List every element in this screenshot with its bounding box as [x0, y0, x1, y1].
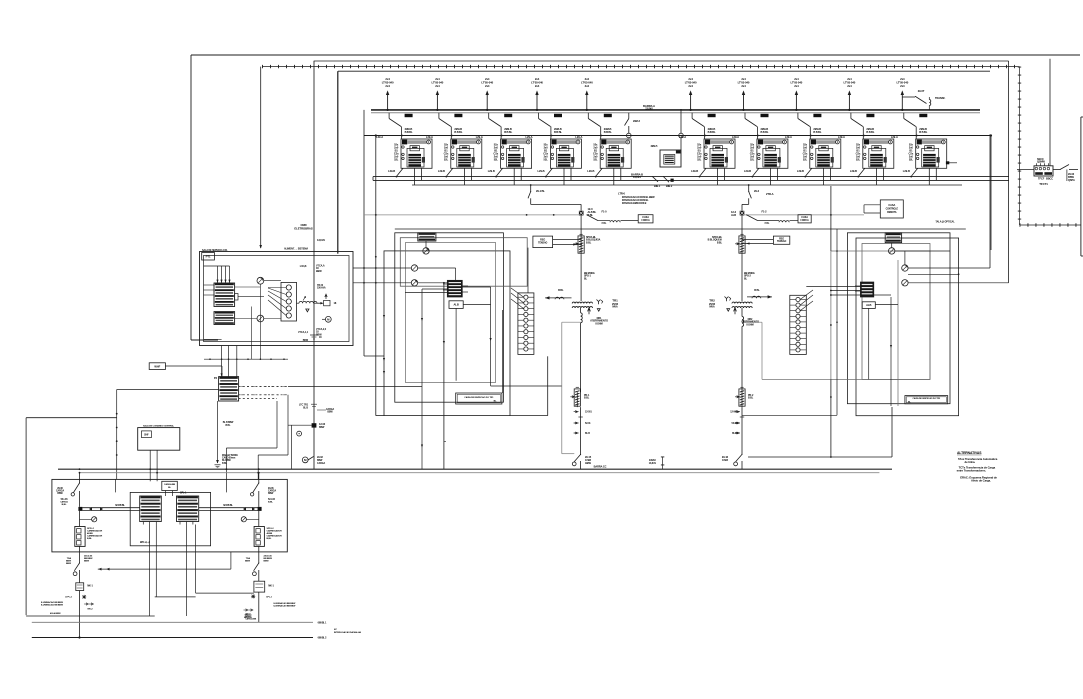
wire from TR2 meter 3 to frame	[908, 282, 1009, 284]
svg-text:BBW: BBW	[327, 412, 333, 414]
TR1 meter circle 1	[423, 241, 429, 254]
feeder bay 2 with breaker 52-2	[426, 77, 482, 185]
svg-text:LTC TR1: LTC TR1	[299, 404, 309, 407]
TR2 high-side chain	[731, 210, 744, 217]
transfer switch right of TFCT1	[1053, 165, 1078, 183]
TR1 inner equipment box	[406, 243, 496, 383]
TR1 meter circle 3	[411, 280, 417, 286]
LV yard enclosure	[26, 418, 155, 616]
motor M near bus	[302, 456, 325, 465]
svg-text:INTERLIG BBW DOS B: INTERLIG BBW DOS B	[622, 202, 647, 205]
LV right incomer	[250, 468, 276, 507]
svg-text:29M‑5: 29M‑5	[651, 144, 658, 148]
control wire to TR2 chain	[744, 214, 864, 216]
svg-text:29B‑2: 29B‑2	[666, 185, 673, 188]
svg-text:F BL: F BL	[602, 223, 607, 225]
pilot lamp circle	[297, 431, 302, 436]
tap wire from TR1 neutral	[562, 322, 581, 454]
svg-text:MVA: MVA	[709, 305, 714, 309]
signal bundle down to LV room	[226, 395, 291, 480]
svg-text:B,BL: B,BL	[62, 504, 68, 506]
svg-text:606/BL 2: 606/BL 2	[318, 638, 327, 640]
LV main bus conductor A	[58, 468, 892, 470]
TR2 remote panel box	[864, 200, 903, 218]
aux transformer winding	[299, 294, 337, 312]
left distribution wire	[116, 390, 219, 480]
svg-text:BBCC: BBCC	[1046, 177, 1053, 181]
svg-text:TFCF: TFCF	[1038, 177, 1045, 181]
svg-text:de linha.: de linha.	[965, 460, 976, 464]
svg-text:B BL: B BL	[584, 397, 590, 400]
svg-text:BBW: BBW	[585, 462, 591, 465]
svg-text:H 13,8: H 13,8	[300, 265, 307, 268]
control wire to TR1 chain	[364, 214, 579, 216]
aux service inner box	[204, 256, 350, 342]
section interconnect line	[395, 228, 966, 230]
fenced comms border top	[262, 66, 1020, 68]
LV right feeder chain below board	[245, 552, 274, 622]
svg-text:Alivio de Carga.: Alivio de Carga.	[971, 479, 991, 483]
svg-text:13,8 kV: 13,8 kV	[633, 175, 641, 179]
svg-text:REMOTA: REMOTA	[887, 211, 897, 214]
TR1 aux branch: switch, reactor, panel	[586, 210, 653, 225]
TR1 section box 2	[395, 233, 504, 402]
aux meter 1	[257, 277, 264, 284]
svg-text:29‑02: 29‑02	[317, 456, 324, 459]
ALTERNATIVAS notes	[957, 451, 998, 483]
TR1 ground switch 29-15	[572, 454, 591, 469]
TR2 neutral grounding reactor	[741, 308, 759, 392]
CAIXA inspection box TR2	[905, 396, 948, 404]
interconnection note block	[618, 192, 655, 206]
TR2 aux riser wire	[897, 260, 899, 406]
svg-text:CONTROLE: CONTROLE	[886, 208, 899, 210]
arrows on TR1 section edge	[383, 315, 385, 374]
TR1 caixa feed wire	[502, 310, 504, 393]
svg-text:12‑001: 12‑001	[585, 412, 593, 414]
svg-text:MK‑2: MK‑2	[87, 609, 93, 611]
inner frame B	[314, 61, 1009, 283]
TR2 neutral tap wire	[742, 322, 831, 379]
aux motor M	[322, 316, 331, 322]
surge arrester TR1 primary	[574, 215, 584, 254]
LV left meter	[80, 517, 97, 522]
wire TR1 box to bus	[443, 282, 446, 469]
TR1 incomer drop with switch 29-1	[528, 184, 581, 211]
svg-text:TENSAO: TENSAO	[777, 240, 786, 243]
svg-text:CARGA BB: CARGA BB	[164, 483, 175, 486]
wire aux room to TR1 meter 2	[353, 267, 411, 269]
svg-text:ELETROBRAS: ELETROBRAS	[294, 226, 312, 230]
TR2 inner equipment box	[831, 251, 930, 379]
svg-text:12‑002: 12‑002	[730, 412, 738, 414]
wire: sub-bus down left side	[375, 136, 377, 416]
surge arrester TR2 neutral	[735, 387, 745, 407]
svg-text:ALB: ALB	[866, 303, 871, 307]
module pins	[143, 522, 193, 525]
svg-text:BARRA CC: BARRA CC	[594, 465, 607, 469]
svg-text:BBW: BBW	[319, 427, 325, 429]
LV tie double line	[78, 505, 261, 511]
PT1 name box	[202, 249, 228, 260]
svg-text:CARGA: CARGA	[56, 490, 64, 493]
breaker bus end cap	[372, 177, 374, 181]
TR1 relay module (dense)	[443, 280, 468, 297]
svg-text:B BL: B BL	[222, 463, 228, 465]
svg-text:BL B BBW: BL B BBW	[223, 422, 234, 424]
dashed signal rows from relay cabinet	[239, 386, 288, 398]
svg-text:FORCA: FORCA	[641, 219, 650, 222]
TR2 CT junction box	[885, 233, 901, 243]
svg-text:CABO 50mm: CABO 50mm	[222, 457, 235, 460]
feeder bay 3 with breaker 52-3	[476, 77, 532, 185]
svg-text:ILUMINACAO BB BBW: ILUMINACAO BB BBW	[41, 604, 64, 607]
TR2 section box 3	[862, 244, 930, 380]
svg-text:SHF: SHF	[144, 433, 149, 436]
svg-text:29‑0T: 29‑0T	[918, 89, 925, 93]
main bus second conductor	[371, 112, 980, 114]
svg-text:12‑02: 12‑02	[319, 422, 326, 426]
svg-text:150 kVA: 150 kVA	[317, 287, 326, 290]
svg-text:MALHA TERRA: MALHA TERRA	[222, 454, 238, 457]
SALA DE COMANDO CENTRAL box	[138, 424, 180, 472]
LV left notes	[41, 601, 93, 615]
fenced comms border right	[1019, 67, 1021, 225]
TR1 meter circle 2	[411, 265, 417, 271]
panel box beside TR1 arrester	[533, 236, 553, 248]
svg-text:QSMW: QSMW	[1037, 160, 1046, 164]
svg-text:8 OHM: 8 OHM	[746, 323, 753, 326]
panel box beside TR2 arrester	[773, 236, 789, 244]
svg-text:TENSAO: TENSAO	[538, 242, 547, 245]
breaker return line	[412, 184, 962, 186]
feeder bay 1 with breaker 52-1	[376, 77, 432, 185]
svg-text:entre Transformadores.: entre Transformadores.	[957, 469, 987, 473]
svg-text:CARGA: CARGA	[60, 501, 68, 504]
remote transfer cubicle TFCT1	[1017, 157, 1053, 186]
bottom note	[334, 628, 361, 634]
svg-text:FORCA: FORCA	[800, 219, 809, 222]
wire: bus to TR1 section left	[363, 110, 365, 356]
svg-text:MK‑1: MK‑1	[87, 586, 93, 588]
ground connection below relay cabinet	[215, 401, 239, 468]
power transformer TR2	[709, 297, 752, 315]
TR2 relay module (dense)	[855, 282, 874, 297]
svg-text:BPL‑1: BPL‑1	[180, 493, 187, 495]
TR2 low side link to ground bus	[748, 407, 892, 457]
LV top link box	[162, 481, 187, 496]
bay 10 bus-transfer switch	[902, 89, 945, 110]
TR2 CT circle stack	[790, 290, 813, 354]
protection relay cabinet	[219, 377, 239, 401]
svg-text:CP‑L1: CP‑L1	[266, 597, 273, 599]
LV left battery box	[75, 511, 103, 552]
TR2 incomer drop with switch 29-2	[742, 184, 774, 211]
TR1 riser wire	[490, 287, 562, 386]
TR1 neutral grounding reactor	[581, 308, 609, 392]
LV switchboard inner box	[130, 492, 210, 545]
svg-text:62‑BB BL: 62‑BB BL	[115, 505, 125, 507]
svg-text:ALB: ALB	[731, 213, 736, 217]
feeder breaker (black) on x=314	[288, 404, 334, 430]
svg-text:VTCA,1,1: VTCA,1,1	[298, 331, 309, 334]
dc tie wire to right chain	[196, 592, 254, 594]
aux relay stack A	[214, 283, 235, 307]
svg-text:52‑01: 52‑01	[585, 423, 591, 425]
svg-text:B BL: B BL	[586, 241, 592, 244]
breaker bus B	[373, 179, 1009, 181]
svg-text:52‑02: 52‑02	[731, 423, 737, 425]
TR2 aux branch: switch, reactor, panel	[746, 210, 811, 225]
svg-text:B,BL: B,BL	[267, 538, 273, 540]
svg-text:13,8kV: 13,8kV	[645, 106, 653, 110]
TR2 aux box ALB	[862, 302, 875, 309]
svg-text:BBW: BBW	[57, 493, 63, 495]
outer drawing frame	[191, 55, 1080, 340]
relay cabinet feeders from aux room	[204, 284, 288, 377]
LV right chain arrows	[244, 609, 253, 611]
power transformer TR1	[572, 299, 618, 315]
svg-text:2TR‑A: 2TR‑A	[766, 192, 774, 196]
TR2 chain to transformer	[741, 254, 743, 301]
surge arrester TR1 neutral	[570, 387, 580, 407]
svg-text:REG: REG	[779, 238, 784, 241]
svg-text:WHF: WHF	[154, 364, 160, 368]
13.8kV main bus	[371, 109, 980, 111]
svg-text:B,BL: B,BL	[87, 538, 93, 540]
svg-text:CAIXA DE INSPECAO DO TR2: CAIXA DE INSPECAO DO TR2	[913, 397, 941, 400]
TR2 riser wire B	[742, 229, 838, 415]
svg-text:29‑2: 29‑2	[754, 189, 760, 193]
svg-text:F BL: F BL	[765, 223, 770, 225]
bus metering cubicle	[651, 138, 681, 167]
breaker-bus section switches	[652, 176, 674, 188]
TR2 chain to ground bus	[741, 407, 743, 454]
TR1 CT circle stack	[511, 288, 534, 354]
svg-text:ILUMINACAO BB BBW: ILUMINACAO BB BBW	[273, 605, 296, 608]
svg-text:TFCT1: TFCT1	[1039, 182, 1048, 186]
svg-text:29B‑1: 29B‑1	[654, 185, 661, 188]
TR1 chain tap marks	[574, 411, 593, 435]
feeder bay 5 with breaker 52-5	[575, 77, 631, 185]
small meter box WHF	[149, 363, 222, 377]
svg-text:BPLx,L,2: BPLx,L,2	[140, 541, 151, 544]
svg-text:BL B: BL B	[585, 433, 590, 435]
svg-text:ATER: ATER	[722, 459, 728, 462]
TR2 meter circle 1	[889, 243, 960, 276]
stack feeders with arrows	[204, 266, 231, 283]
svg-text:606/BL 1: 606/BL 1	[318, 623, 327, 625]
wire TR1 relay to riser	[462, 286, 490, 288]
partial panel box at right edge	[1081, 117, 1083, 256]
aux service outer box	[200, 252, 354, 346]
wire TR2 area vertical	[830, 186, 832, 458]
TR1 chain to ground bus	[580, 407, 582, 454]
svg-text:REG: REG	[540, 239, 545, 242]
wire aux room to TR1 meter 3	[353, 282, 411, 284]
LV right notes	[245, 602, 296, 621]
svg-text:CARGA: CARGA	[326, 408, 334, 411]
svg-text:F1‑0: F1‑0	[602, 210, 608, 214]
TR1 CT junction box	[418, 233, 436, 241]
station service feeder (long vertical)	[313, 61, 315, 469]
svg-text:CARGA: CARGA	[317, 462, 325, 465]
wire: sub-bus to frame C right	[990, 136, 992, 251]
LV main bus conductor B	[80, 472, 879, 474]
svg-text:B BL: B BL	[717, 241, 723, 244]
feeder bay 6 with breaker 52-6	[679, 77, 735, 185]
feeder bay 8 with breaker 52-8	[785, 77, 841, 185]
TR2 meter circle 3	[902, 280, 908, 286]
bus sectionalizing node left	[625, 113, 641, 138]
transfer wire between LV bays	[98, 552, 231, 571]
CAIXA inspection box TR1	[456, 393, 502, 404]
svg-text:62‑BB BL: 62‑BB BL	[223, 505, 233, 507]
svg-text:BL B: BL B	[732, 433, 737, 435]
svg-text:29M‑3: 29M‑3	[633, 119, 640, 123]
wire from TR2 meter 2 to frame	[908, 267, 990, 269]
svg-text:SALA DE SERVICO AUX.: SALA DE SERVICO AUX.	[202, 249, 228, 252]
TR2 CT secondary arrow	[747, 288, 772, 299]
svg-text:B BL: B BL	[754, 288, 760, 292]
TR2 section box 2	[856, 238, 959, 416]
svg-text:29‑1 BL: 29‑1 BL	[536, 189, 545, 193]
TR2 chain tap marks	[730, 411, 744, 435]
feeder bay 4 with breaker 52-4	[526, 77, 582, 185]
TR1 CT secondary arrow	[545, 288, 571, 300]
wire CT stack to box bottom	[547, 356, 549, 415]
svg-text:400‑4 BBW: 400‑4 BBW	[50, 612, 62, 615]
TR1 chain to transformer	[580, 254, 582, 301]
TR2 ground switch 29-16	[722, 454, 743, 469]
svg-text:13,8 kV: 13,8 kV	[649, 463, 657, 465]
svg-text:PT1: PT1	[206, 255, 211, 259]
bus sectionalizing node right	[679, 109, 684, 138]
LV right battery box	[254, 511, 282, 552]
svg-text:LTR‑0: LTR‑0	[618, 192, 626, 196]
feeder bay 10 with breaker 52-10	[891, 77, 947, 185]
svg-text:ERAC: ERAC	[649, 458, 656, 462]
svg-text:8 OHM: 8 OHM	[595, 322, 602, 325]
svg-text:TRANSF.: TRANSF.	[935, 96, 946, 100]
VT tap on feeder	[298, 331, 322, 342]
svg-text:SALA DE COMANDO CENTRAL: SALA DE COMANDO CENTRAL	[143, 424, 175, 427]
frame C left drop end	[337, 71, 339, 253]
LV switchboard outer box	[52, 479, 287, 552]
aux VT circle stack	[268, 282, 297, 321]
inner frame C	[338, 71, 990, 268]
svg-text:BBW: BBW	[316, 270, 322, 273]
svg-text:INTERLIGACAO DA MALHA: INTERLIGACAO DA MALHA	[334, 631, 361, 634]
LV charger module 1	[140, 496, 162, 522]
bay interconnection sub-bus	[364, 135, 991, 137]
svg-text:TALA @ OPTICAL: TALA @ OPTICAL	[935, 221, 955, 224]
svg-text:B BL: B BL	[748, 397, 754, 400]
svg-text:CASA: CASA	[888, 203, 895, 207]
breaker bus A	[373, 176, 1009, 178]
svg-text:F1‑2: F1‑2	[762, 210, 768, 214]
svg-text:B BL: B BL	[226, 425, 232, 427]
aux meter 2	[257, 315, 264, 322]
TR1 high-side chain	[579, 207, 597, 217]
svg-text:ALTERNATIVAS: ALTERNATIVAS	[957, 451, 982, 455]
TR1 box bottom extension	[510, 415, 548, 417]
TR2 riser wire	[890, 297, 892, 406]
svg-text:CAIXA DE INSPECAO DO TR1: CAIXA DE INSPECAO DO TR1	[464, 396, 494, 399]
ground grid line 1	[32, 621, 313, 623]
ground grid line 2	[32, 637, 313, 639]
svg-text:BL B: BL B	[303, 408, 308, 410]
signal wire to TR1 riser	[288, 386, 422, 388]
LV dc drops	[150, 525, 254, 617]
wire REG box to CT stack	[527, 248, 529, 293]
svg-text:MVA: MVA	[612, 305, 617, 309]
svg-text:BBW: BBW	[303, 340, 309, 342]
surge arrester TR2 primary	[735, 215, 745, 254]
svg-text:BBW: BBW	[317, 460, 323, 462]
svg-text:QSPA: QSPA	[1068, 178, 1075, 182]
TR1 protection section outer box	[384, 251, 510, 416]
aux internal tie wires	[204, 281, 318, 319]
comms wire into aux room	[260, 67, 262, 248]
TR1 aux box ALB	[449, 301, 463, 309]
bay10 aux contact wire	[948, 162, 957, 164]
feeder bay 7 with breaker 52-7	[732, 77, 788, 185]
ERAC tick tap	[649, 457, 663, 470]
svg-text:B,BL: B,BL	[268, 502, 274, 504]
svg-text:ALB: ALB	[453, 303, 458, 307]
svg-text:MK‑1: MK‑1	[268, 586, 274, 588]
TR2 protection section outer box	[847, 233, 950, 404]
svg-text:LTP‑L1: LTP‑L1	[65, 597, 73, 599]
feeders crossing into LV board from above	[116, 468, 260, 492]
TR2 meter circle 2	[902, 265, 908, 271]
TR1 aux riser wire	[421, 289, 448, 469]
LV left feeder chain below board	[65, 552, 93, 639]
svg-text:ALIMENT. → SISTEMA: ALIMENT. → SISTEMA	[284, 247, 308, 250]
feed to remote transfer cubicle	[1049, 59, 1051, 166]
svg-text:PX: PX	[214, 377, 218, 380]
LV left incomer	[56, 468, 80, 507]
svg-text:13,8 kV: 13,8 kV	[317, 238, 325, 242]
svg-text:BBW: BBW	[268, 493, 274, 495]
svg-text:CARGA BB: CARGA BB	[245, 618, 256, 621]
fenced comms border bottom stub	[1020, 224, 1081, 226]
aux relay stack B	[214, 312, 235, 325]
TR1 section box 3	[400, 238, 527, 287]
svg-text:B BL: B BL	[558, 288, 564, 292]
LV right meter	[241, 517, 259, 522]
feeder bay 9 with breaker 52-9	[838, 77, 894, 185]
LV charger module 2	[177, 496, 199, 522]
svg-text:CARGA: CARGA	[268, 490, 276, 493]
